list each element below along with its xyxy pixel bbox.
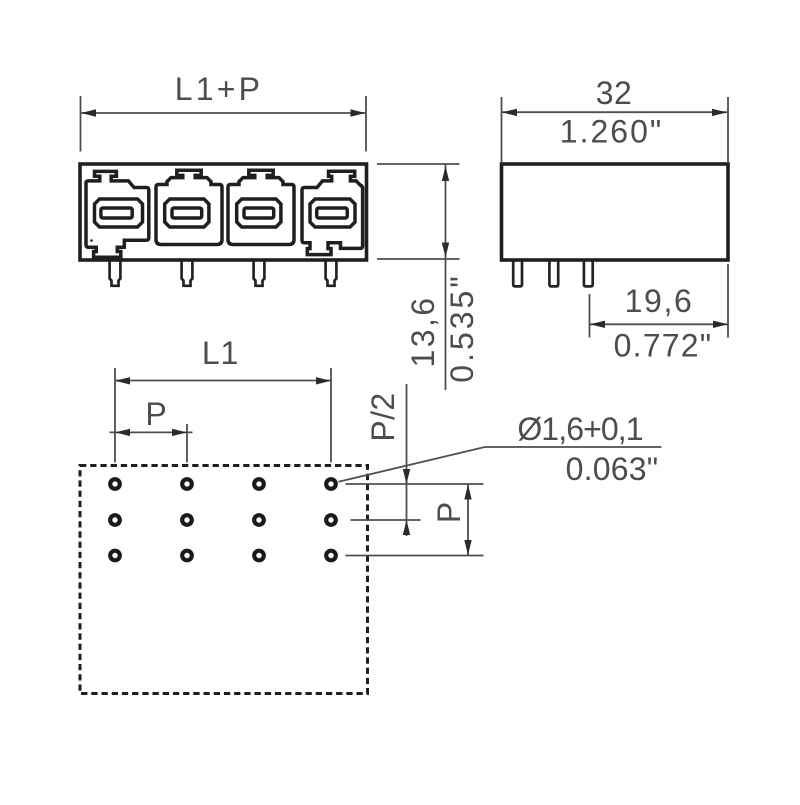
pole 3 wire slot (244, 208, 274, 218)
hole r1c1 (110, 479, 120, 489)
dimension 13,6 line (445, 165, 447, 391)
dimension 32 extension line right (727, 97, 729, 162)
dimension P right arrow down (464, 540, 471, 555)
dimension L1+P line (81, 112, 366, 114)
dimension 19,6 extension line right (727, 264, 729, 338)
pole 1 clamp frame (95, 199, 143, 227)
svg-text:19,6: 19,6 (625, 283, 694, 319)
dimension P/2 arrow down (above row1) (403, 469, 410, 484)
pole 1 outline (with top and bottom tabs) (86, 171, 149, 257)
dimension 19,6 line (590, 323, 728, 325)
hole r3c2 (182, 551, 192, 561)
pole 2 outline (156, 170, 222, 244)
row 3 extension line (346, 555, 484, 557)
pole 1 wire slot (101, 208, 132, 218)
side pin 3 (584, 260, 593, 286)
svg-text:0.772": 0.772" (614, 328, 713, 364)
hole r2c1 (110, 515, 120, 525)
dimension L1+P arrow left (81, 109, 96, 116)
pin 3 (front view) (254, 261, 265, 286)
svg-text:P: P (145, 396, 166, 432)
dimension L1 extension line right (330, 368, 332, 463)
svg-text:13,6: 13,6 (405, 296, 441, 368)
svg-text:0.535": 0.535" (444, 273, 480, 382)
pin 2 (front view) (182, 261, 193, 286)
dimension L1+P extension line right (365, 96, 367, 152)
dimension P (right, vertical) line (467, 484, 469, 556)
dimension 13,6 extension line top (377, 163, 460, 165)
pole 1 detail dot (90, 239, 93, 242)
dimension L1+P arrow right (351, 109, 366, 116)
dimension P extension line (col2) (186, 424, 188, 463)
dimension 13,6 arrow up (442, 166, 449, 181)
svg-text:L1: L1 (202, 335, 239, 371)
dimension 32 arrow left (502, 109, 517, 116)
pin 4 (front view) (326, 261, 337, 286)
hole r3c4 (326, 551, 336, 561)
dimension 19,6 arrow left (590, 321, 605, 328)
pole 4 outline (mirrored, tabs offset) (302, 171, 363, 254)
row 1 extension line (346, 483, 484, 485)
svg-text:0.063": 0.063" (566, 451, 659, 487)
svg-text:P/2: P/2 (365, 392, 401, 441)
hole r2c4 (326, 515, 336, 525)
svg-text:32: 32 (596, 75, 633, 111)
dimension L1+P extension line left (80, 96, 82, 152)
svg-text:Ø1,6+0,1: Ø1,6+0,1 (517, 411, 642, 447)
dimension P/2 line (vertical) (406, 384, 408, 536)
PCB dashed outline (80, 466, 368, 694)
dimension L1 arrow left (115, 377, 130, 384)
dimension 19,6 extension line left (589, 294, 591, 338)
pole 4 wire slot (317, 208, 348, 218)
side pin 1 (513, 260, 522, 286)
dimension P/2 arrow up (below row2) (403, 520, 410, 535)
leader line to hole (339, 447, 662, 482)
dimension L1 line (115, 380, 331, 382)
hole r1c4 (326, 479, 336, 489)
pin 1 (front view) (110, 261, 121, 286)
side pin 2 (549, 260, 558, 286)
dimension L1 arrow right (316, 377, 331, 384)
dimension P right arrow up (464, 485, 471, 500)
svg-text:P: P (431, 502, 467, 523)
hole r3c3 (254, 551, 264, 561)
hole r1c2 (182, 479, 192, 489)
dimension P arrow left (115, 429, 130, 436)
pole 3 outline (228, 170, 294, 244)
dimension L1 extension line left (114, 368, 116, 463)
pole 2 wire slot (172, 208, 202, 218)
hole r2c3 (254, 515, 264, 525)
pole 2 clamp frame (165, 199, 209, 227)
dimension 19,6 arrow right (713, 321, 728, 328)
hole r2c2 (182, 515, 192, 525)
dimension P arrow right (172, 429, 187, 436)
hole r1c3 (254, 479, 264, 489)
hole r3c1 (110, 551, 120, 561)
dimension 32 line (502, 111, 727, 113)
row 2 extension line (351, 519, 421, 521)
pole 3 clamp frame (237, 199, 281, 227)
pole 4 clamp frame (310, 199, 355, 227)
dimension 13,6 arrow down (442, 243, 449, 258)
svg-text:1.260": 1.260" (560, 114, 663, 150)
svg-text:L1+P: L1+P (175, 71, 263, 107)
dimension 13,6 extension line bottom (377, 258, 460, 260)
connector body front view (80, 164, 367, 260)
dimension P line (110, 431, 193, 433)
dimension 32 arrow right (712, 109, 727, 116)
dimension 32 extension line left (501, 97, 503, 162)
connector body side view (502, 164, 729, 260)
